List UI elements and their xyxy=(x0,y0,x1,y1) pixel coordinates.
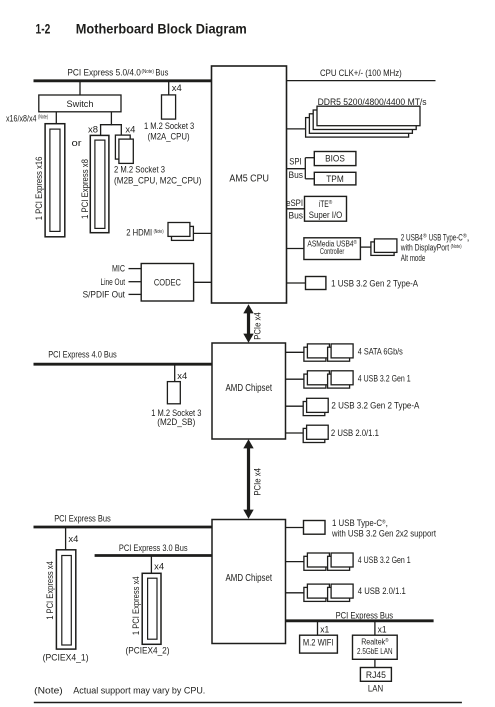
svg-text:1 USB 3.2 Gen 2 Type-A: 1 USB 3.2 Gen 2 Type-A xyxy=(331,277,419,288)
note footnote xyxy=(34,684,205,695)
svg-text:x4: x4 xyxy=(68,534,78,544)
svg-text:2 M.2 Socket 3: 2 M.2 Socket 3 xyxy=(114,164,165,175)
connector 4 USB 3.2 Gen 1 stacks xyxy=(304,371,411,388)
slot 1 PCI Express x4 (PCIEX4_2) xyxy=(126,573,170,655)
svg-text:2 USB 2.0/1.1: 2 USB 2.0/1.1 xyxy=(331,427,379,438)
svg-text:LAN: LAN xyxy=(368,682,383,693)
svg-text:M.2 WIFI: M.2 WIFI xyxy=(303,637,334,648)
svg-text:4 USB 3.2 Gen 1: 4 USB 3.2 Gen 1 xyxy=(358,372,411,383)
svg-text:4 SATA 6Gb/s: 4 SATA 6Gb/s xyxy=(358,346,403,357)
wire PCI Express bus (thick, bottom right) xyxy=(286,619,434,622)
1 M.2 Socket 3 (M2D_SB) xyxy=(151,382,201,428)
svg-text:PCI Express 4.0 Bus: PCI Express 4.0 Bus xyxy=(48,349,117,360)
wire switch to PCIe x16 slot xyxy=(55,112,57,124)
connector USB4 Type-C stack xyxy=(371,239,397,256)
wire CPU CLK line xyxy=(287,80,436,82)
wire chipset to USB Type-C xyxy=(286,527,304,529)
svg-text:x4: x4 xyxy=(177,371,187,381)
svg-text:Realtek®: Realtek® xyxy=(361,636,389,646)
wire chipset to USB 3.2 Gen 1 xyxy=(286,378,304,380)
svg-text:AMD Chipset: AMD Chipset xyxy=(226,383,273,394)
wifi M.2 WIFI box xyxy=(300,635,338,653)
wire bus to M.2 socket M2A xyxy=(168,81,170,95)
svg-text:MIC: MIC xyxy=(112,263,125,274)
svg-text:x4: x4 xyxy=(125,125,135,135)
svg-text:1 PCI Express x4: 1 PCI Express x4 xyxy=(44,561,55,620)
slot 1 PCI Express x8 xyxy=(79,135,109,232)
memory DDR5 DIMM stack xyxy=(306,106,420,137)
svg-text:x1: x1 xyxy=(378,624,387,634)
wire PCI Express 4.0 bus (thick) xyxy=(34,363,213,366)
wire branch to PCIe x8 slot xyxy=(100,125,102,136)
svg-text:2 USB 3.2 Gen 2 Type-A: 2 USB 3.2 Gen 2 Type-A xyxy=(331,400,420,411)
slot 1 PCI Express x16 xyxy=(33,124,65,237)
svg-text:Line Out: Line Out xyxy=(101,276,126,287)
svg-text:or: or xyxy=(72,137,82,148)
svg-text:CODEC: CODEC xyxy=(154,277,181,288)
svg-text:PCIe x4: PCIe x4 xyxy=(252,468,263,496)
svg-text:Controller: Controller xyxy=(320,247,345,256)
svg-text:RJ45: RJ45 xyxy=(366,669,386,680)
superio iTE Super I/O xyxy=(305,196,347,221)
wire bus to PCIEX4_1 xyxy=(65,527,67,550)
svg-text:Bus: Bus xyxy=(289,169,304,180)
wire chipset to SATA xyxy=(286,351,304,353)
wire branch horizontal xyxy=(100,124,122,126)
label 2 USB4 USB Type-C with DisplayPort Alt mode xyxy=(400,232,469,263)
2 M.2 Socket 3 stack (M2B_CPU, M2C_CPU) xyxy=(114,135,202,185)
svg-text:Motherboard Block Diagram: Motherboard Block Diagram xyxy=(76,22,247,38)
wire bus to Realtek LAN xyxy=(374,621,376,636)
svg-text:with USB 3.2 Gen 2x2 support: with USB 3.2 Gen 2x2 support xyxy=(331,527,436,538)
wire switch to branch xyxy=(110,112,112,126)
wire chipset to USB 3.2 Gen 1 (bottom) xyxy=(286,561,304,563)
svg-text:Bus: Bus xyxy=(289,210,304,221)
svg-text:4 USB 3.2 Gen 1: 4 USB 3.2 Gen 1 xyxy=(358,554,411,565)
wire bus to switch xyxy=(79,81,81,95)
svg-text:PCI Express 3.0 Bus: PCI Express 3.0 Bus xyxy=(119,542,188,553)
wire chipset to USB 3.2 Gen 2 Type-A xyxy=(286,405,304,407)
svg-text:1 PCI Express x16: 1 PCI Express x16 xyxy=(33,157,44,221)
svg-text:(Note): (Note) xyxy=(34,684,63,695)
svg-text:PCI Express Bus: PCI Express Bus xyxy=(336,610,394,621)
wire PCIe x4 arrow chipset-chipset xyxy=(243,439,262,519)
svg-text:DDR5 5200/4800/4400 MT/s: DDR5 5200/4800/4400 MT/s xyxy=(318,96,427,107)
wire Realtek to RJ45 xyxy=(374,659,376,668)
wire CPU to ASMedia xyxy=(287,248,304,250)
tpm TPM box xyxy=(314,172,356,185)
connector 4 SATA 6Gb/s stacks xyxy=(304,344,403,361)
svg-text:SPI: SPI xyxy=(289,156,302,167)
switch box xyxy=(39,95,121,112)
wire branch to M.2 stack xyxy=(120,125,122,136)
slot 1 PCI Express x4 (PCIEX4_1) xyxy=(43,550,89,663)
wire chipset to USB 2.0 (bottom) xyxy=(286,592,304,594)
lan Realtek 2.5GbE LAN box xyxy=(353,635,398,659)
chipset AMD Chipset (middle) xyxy=(212,343,286,439)
connector 2 USB 2.0/1.1 stack xyxy=(303,425,379,442)
svg-text:PCI Express Bus: PCI Express Bus xyxy=(54,512,111,523)
svg-text:Super I/O: Super I/O xyxy=(309,209,343,220)
svg-text:AMD Chipset: AMD Chipset xyxy=(226,573,273,584)
svg-text:1-2: 1-2 xyxy=(36,22,51,38)
svg-text:4 USB 2.0/1.1: 4 USB 2.0/1.1 xyxy=(358,585,406,596)
codec CODEC xyxy=(141,264,193,302)
connector 1 USB Type-C box xyxy=(304,521,326,535)
wire PCIe x4 arrow CPU-chipset xyxy=(243,304,262,343)
node PCI Express 5.0/4.0 Bus label xyxy=(67,67,168,78)
wire bus to M2D socket xyxy=(174,364,176,382)
svg-text:eSPI: eSPI xyxy=(286,197,303,208)
svg-text:PCIe x4: PCIe x4 xyxy=(252,312,263,340)
rule bottom page rule xyxy=(34,702,462,704)
connector 4 USB 2.0/1.1 stacks (bottom) xyxy=(304,584,406,601)
wire Line Out stub xyxy=(129,281,142,283)
1 M.2 Socket 3 (M2A_CPU) xyxy=(144,95,194,141)
svg-text:Actual support may vary by CPU: Actual support may vary by CPU. xyxy=(73,684,205,695)
svg-text:1 M.2 Socket 3: 1 M.2 Socket 3 xyxy=(144,120,194,131)
wire PCI Express 3.0 bus (thick) xyxy=(95,554,213,557)
usb4 controller ASMedia USB4 xyxy=(304,238,361,260)
label 1 USB Type-C with USB 3.2 Gen 2x2 support xyxy=(331,517,436,538)
wire CPU to DDR5 xyxy=(287,128,306,130)
svg-text:x8: x8 xyxy=(88,125,98,135)
wire PCI Express bus (thick, bottom left) xyxy=(34,526,213,529)
svg-text:2.5GbE LAN: 2.5GbE LAN xyxy=(357,646,393,656)
svg-text:1 PCI Express x4: 1 PCI Express x4 xyxy=(130,576,141,635)
svg-text:AM5 CPU: AM5 CPU xyxy=(229,174,269,185)
svg-text:(M2A_CPU): (M2A_CPU) xyxy=(148,130,190,141)
cpu AM5 CPU xyxy=(212,66,287,303)
svg-text:CPU CLK+/- (100 MHz): CPU CLK+/- (100 MHz) xyxy=(320,67,402,78)
title heading 1-2 Motherboard Block Diagram xyxy=(36,22,247,38)
wire bus to M.2 WIFI xyxy=(317,621,319,636)
bios BIOS box xyxy=(314,152,356,166)
wire eSPI bus xyxy=(287,208,305,210)
wire CPU to USB 3.2 Gen2 Type-A xyxy=(287,282,306,284)
wire ASMedia to USB4 ports xyxy=(360,246,371,248)
svg-text:S/PDIF Out: S/PDIF Out xyxy=(83,289,126,300)
connector 2 USB 3.2 Gen 2 Type-A stack xyxy=(303,398,420,415)
svg-text:Switch: Switch xyxy=(67,98,94,109)
svg-text:x1: x1 xyxy=(320,624,329,634)
svg-text:Alt mode: Alt mode xyxy=(401,252,426,263)
wire S/PDIF Out stub xyxy=(129,293,142,295)
svg-text:(PCIEX4_2): (PCIEX4_2) xyxy=(126,644,170,655)
rj45 RJ45 box xyxy=(360,668,391,682)
wire chipset to USB 2.0 xyxy=(286,432,304,434)
wire bus to PCIEX4_2 xyxy=(150,556,152,574)
svg-text:(M2B_CPU, M2C_CPU): (M2B_CPU, M2C_CPU) xyxy=(114,174,202,185)
svg-text:x4: x4 xyxy=(172,83,182,93)
svg-text:1 PCI Express x8: 1 PCI Express x8 xyxy=(79,159,90,219)
svg-text:x4: x4 xyxy=(154,561,164,571)
svg-text:(PCIEX4_1): (PCIEX4_1) xyxy=(43,652,89,663)
wire CODEC to CPU xyxy=(194,281,212,283)
wire SPI bus bracket xyxy=(287,158,315,179)
svg-text:TPM: TPM xyxy=(326,173,344,184)
svg-text:(M2D_SB): (M2D_SB) xyxy=(157,416,195,427)
wire PCI Express 5.0/4.0 bus (thick) xyxy=(34,79,213,82)
svg-text:BIOS: BIOS xyxy=(325,152,345,163)
chipset AMD Chipset (bottom) xyxy=(212,520,286,644)
connector 4 USB 3.2 Gen 1 stacks (bottom) xyxy=(304,553,411,570)
2 HDMI connector stack xyxy=(126,223,212,241)
connector 1 USB 3.2 Gen 2 Type-A box xyxy=(306,277,326,290)
wire MIC stub xyxy=(129,268,142,270)
